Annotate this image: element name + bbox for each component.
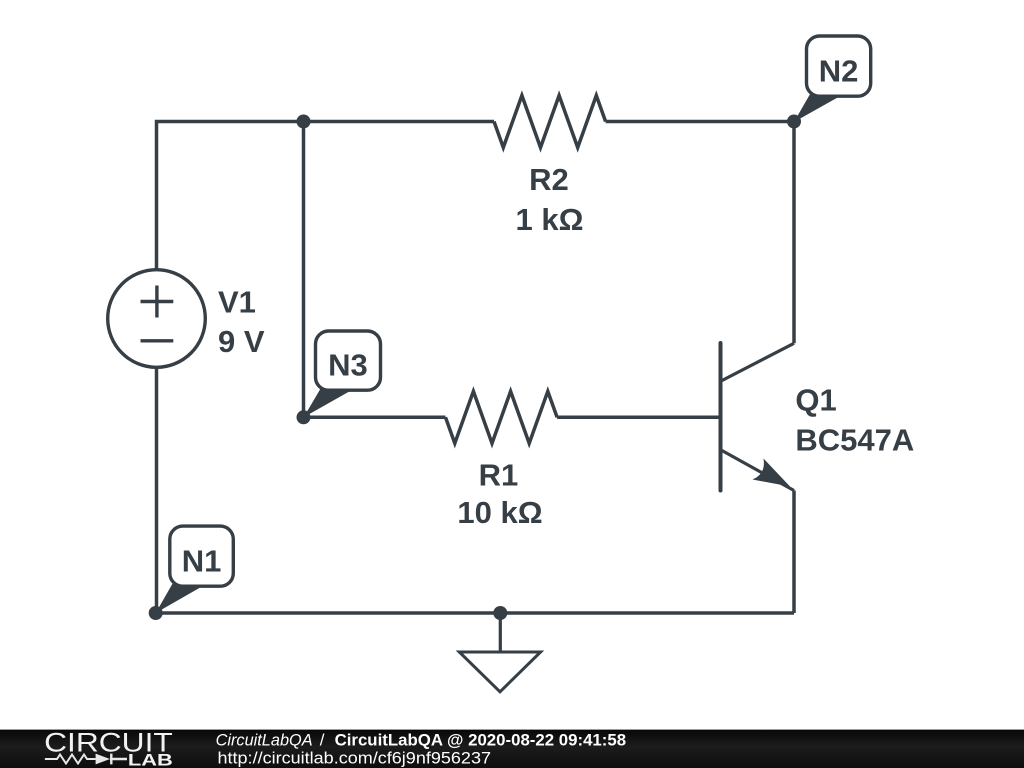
- svg-text:CircuitLabQA: CircuitLabQA: [216, 730, 313, 749]
- junction dot at node N1: [149, 606, 163, 620]
- wire from R1 right terminal to Q1 base: [557, 416, 719, 420]
- node N2 label box: [807, 36, 871, 96]
- svg-text:/: /: [320, 730, 325, 749]
- svg-text:CircuitLabQA @ 2020-08-22 09:4: CircuitLabQA @ 2020-08-22 09:41:58: [335, 730, 626, 749]
- wire from N3 junction to R1 left terminal: [304, 416, 446, 420]
- svg-text:LAB: LAB: [128, 752, 173, 768]
- wire bottom rail from N1 to emitter corner: [156, 611, 794, 615]
- junction dot at top-left node: [297, 115, 311, 129]
- node N3 label box: [316, 331, 381, 390]
- V1 minus sign: [141, 339, 174, 342]
- svg-text:10 kΩ: 10 kΩ: [457, 495, 542, 530]
- V1 plus sign: [141, 286, 174, 318]
- junction dot at ground node: [493, 606, 507, 620]
- svg-text:Q1: Q1: [795, 383, 836, 418]
- voltage source V1 circle: [108, 270, 206, 368]
- svg-text:http://circuitlab.com/cf6j9nf9: http://circuitlab.com/cf6j9nf956237: [218, 749, 492, 768]
- transistor Q1 collector diagonal: [721, 343, 794, 381]
- ground symbol stub: [499, 613, 502, 652]
- svg-text:R1: R1: [479, 458, 519, 493]
- node N1 label tail: [156, 584, 203, 613]
- node N1 label box: [170, 526, 234, 586]
- node N3 label tail: [304, 389, 351, 418]
- wire V1 bottom lead down to bottom rail: [155, 368, 159, 613]
- svg-text:BC547A: BC547A: [795, 423, 914, 458]
- wire emitter vertical from bottom rail up to Q1 emitter: [792, 491, 796, 614]
- transistor Q1 emitter arrow: [753, 459, 791, 487]
- ground symbol triangle: [459, 652, 540, 692]
- wire vertical from top junction down to node N3: [302, 122, 306, 418]
- wire top-left rail from V1 top up and right to node junction: [157, 122, 304, 270]
- svg-text:R2: R2: [529, 162, 569, 197]
- wire from R2 right terminal to node N2 junction: [606, 120, 794, 124]
- transistor Q1 base bar: [719, 343, 723, 491]
- junction dot at node N3: [297, 410, 311, 424]
- CircuitLab logo resistor-diode line: [45, 755, 96, 764]
- wire top rail from junction to R2 left terminal: [304, 120, 495, 124]
- resistor R2 zigzag body: [494, 96, 606, 148]
- svg-text:1 kΩ: 1 kΩ: [516, 202, 584, 237]
- node N2 label tail: [794, 95, 839, 123]
- svg-text:N3: N3: [328, 348, 368, 383]
- svg-text:V1: V1: [218, 285, 256, 320]
- CircuitLab logo diode symbol: [96, 754, 110, 765]
- junction dot at node N2: [787, 115, 801, 129]
- svg-text:N2: N2: [819, 53, 859, 88]
- svg-text:N1: N1: [182, 543, 222, 578]
- svg-text:9 V: 9 V: [218, 324, 265, 359]
- transistor Q1 emitter diagonal: [721, 450, 794, 491]
- wire collector vertical from N2 junction down to Q1 collector: [792, 122, 796, 344]
- resistor R1 zigzag body: [446, 391, 558, 443]
